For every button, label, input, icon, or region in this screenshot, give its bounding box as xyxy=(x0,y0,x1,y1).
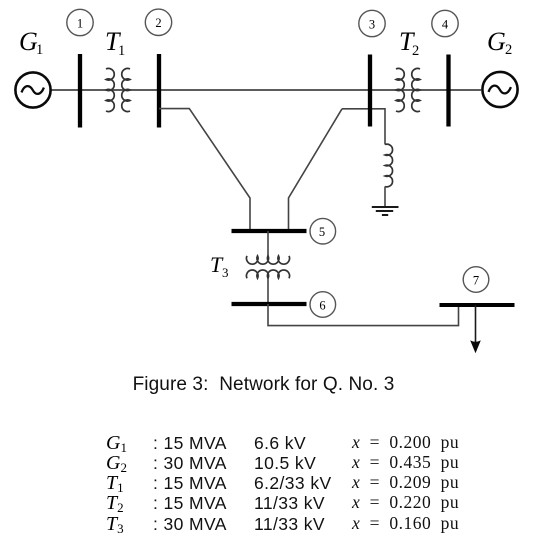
svg-text:2: 2 xyxy=(155,16,161,30)
bus 1 xyxy=(78,54,82,128)
svg-text:3: 3 xyxy=(369,17,375,31)
generator G1 xyxy=(15,72,50,107)
node 5 xyxy=(310,218,336,244)
label T1 xyxy=(105,27,125,59)
wire: T3 to bus 6 xyxy=(267,278,269,304)
bus 7 xyxy=(440,303,515,307)
node 3 xyxy=(359,10,385,36)
wire: main horizontal line G1 to G2 through buses 1-4 xyxy=(51,89,481,91)
node 7 xyxy=(463,267,489,293)
svg-text:1: 1 xyxy=(118,43,125,59)
svg-text:1: 1 xyxy=(36,42,43,58)
svg-text:7: 7 xyxy=(473,273,479,287)
bus 2 xyxy=(157,54,161,128)
svg-text:2: 2 xyxy=(412,43,419,59)
table row T1 xyxy=(106,472,124,496)
table row G1 xyxy=(106,432,127,456)
node 2 xyxy=(145,9,171,35)
bus 6 xyxy=(232,302,307,306)
data table xyxy=(0,0,1,1)
svg-text:3: 3 xyxy=(222,265,229,280)
wire: stub across bus 3 to reactor tap xyxy=(342,109,385,145)
node 4 xyxy=(432,10,458,36)
table row T3 xyxy=(106,513,124,537)
ground xyxy=(372,207,399,215)
table row T2 xyxy=(106,492,124,516)
table row G2 xyxy=(106,452,127,476)
wire: bus 2 to bus 5 (stub, diagonal, drop) xyxy=(159,109,250,231)
label G2 xyxy=(487,27,512,58)
transformer T3 xyxy=(246,256,289,278)
svg-text:1: 1 xyxy=(77,16,83,30)
label G1 xyxy=(19,27,43,58)
wire: bus 3 to bus 5 (stub, diagonal, drop) xyxy=(289,109,343,231)
node 6 xyxy=(310,292,336,318)
wire: bus 5 to T3 xyxy=(267,231,269,256)
svg-text:4: 4 xyxy=(442,17,449,31)
transformer T1 xyxy=(106,68,130,111)
svg-text:5: 5 xyxy=(319,225,325,239)
bus 3 xyxy=(368,55,372,127)
shunt reactor at bus 3 xyxy=(385,144,393,206)
svg-text:G: G xyxy=(487,27,506,56)
wire: bus 6 to bus 7 xyxy=(268,304,459,326)
bus 4 xyxy=(446,55,450,127)
label T2 xyxy=(399,27,419,59)
label T3 xyxy=(210,252,229,280)
transformer T2 xyxy=(396,68,420,111)
svg-text:2: 2 xyxy=(505,42,512,58)
load arrow at bus 7 xyxy=(470,305,481,353)
bus 5 xyxy=(232,229,307,233)
generator G2 xyxy=(482,72,517,107)
node 1 xyxy=(67,9,93,35)
caption: Figure 3 xyxy=(0,374,527,396)
svg-text:6: 6 xyxy=(319,298,325,312)
